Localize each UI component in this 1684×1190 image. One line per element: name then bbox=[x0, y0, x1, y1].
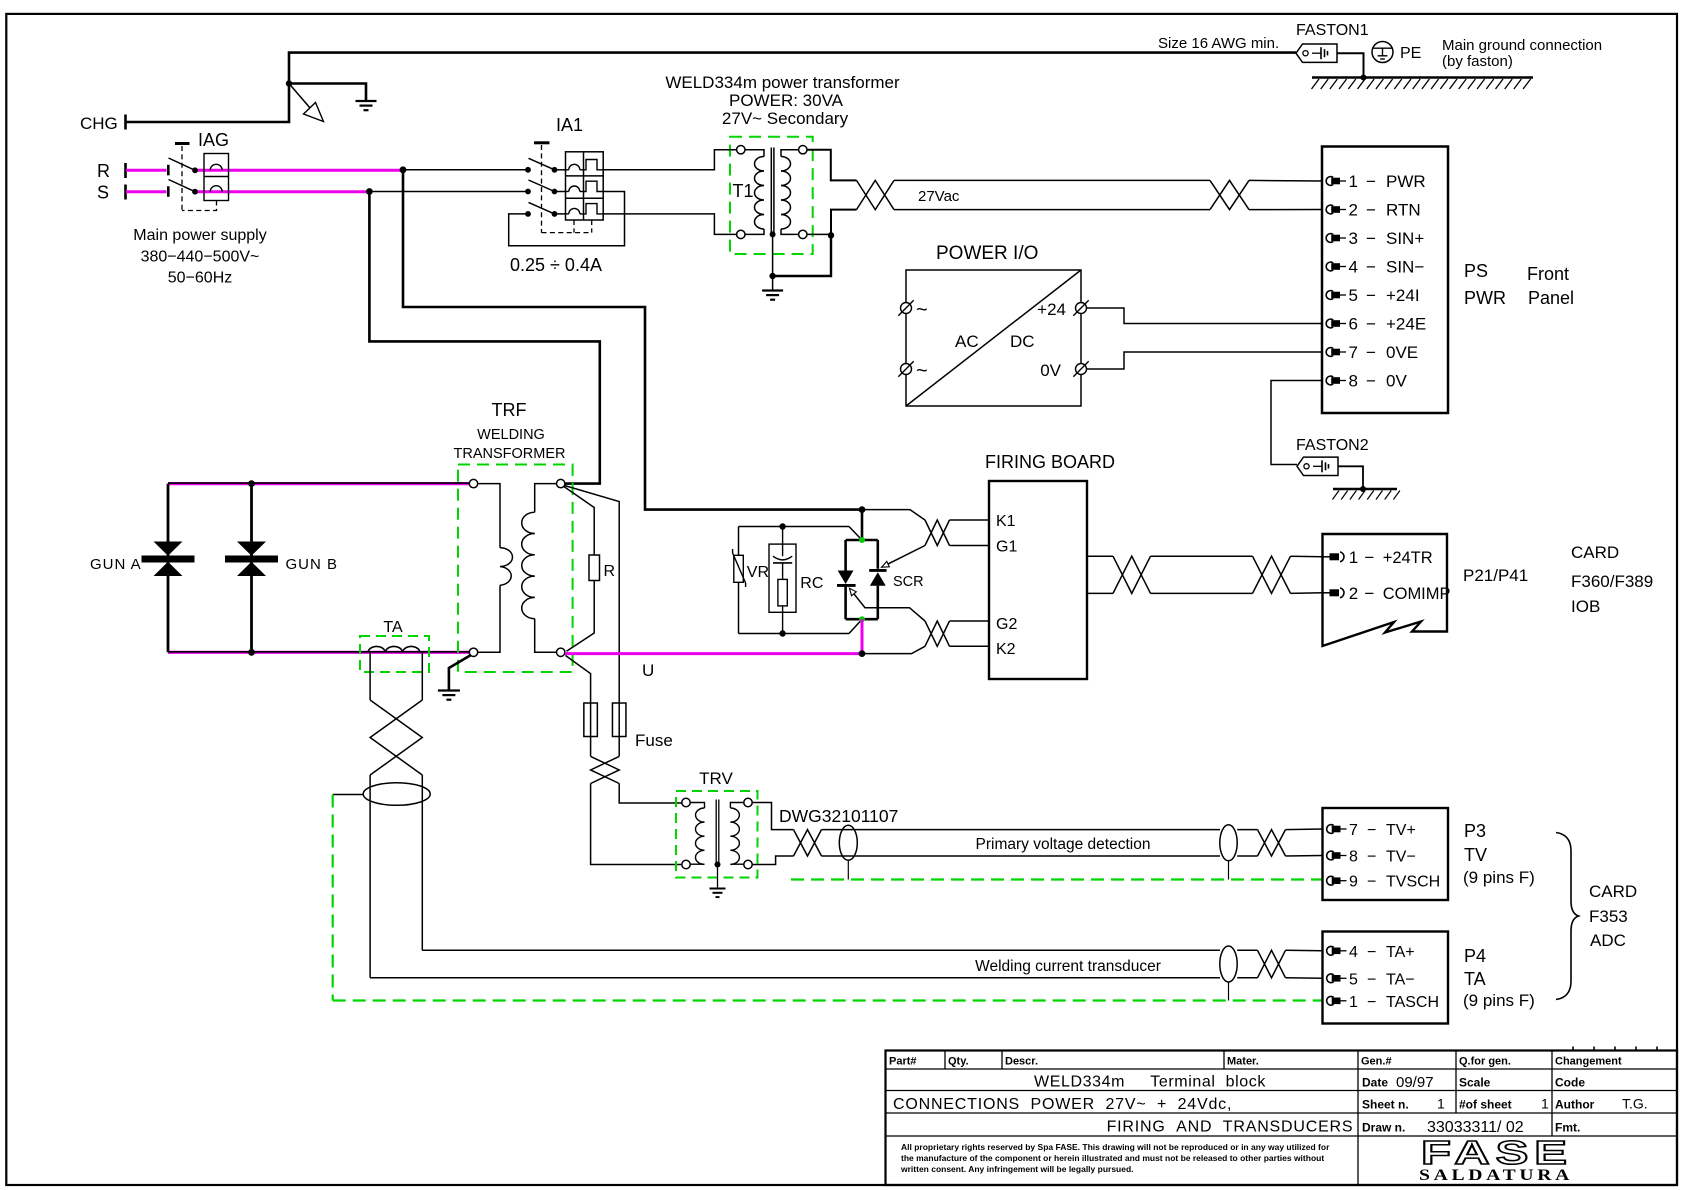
svg-text:U: U bbox=[642, 661, 654, 680]
svg-text:1: 1 bbox=[1541, 1096, 1549, 1112]
svg-text:WELD334m power transformer: WELD334m power transformer bbox=[665, 73, 900, 92]
svg-text:TRV: TRV bbox=[699, 769, 733, 788]
svg-text:COMIMP: COMIMP bbox=[1383, 585, 1451, 603]
svg-text:Main power supply: Main power supply bbox=[133, 227, 266, 244]
svg-text:Qty.: Qty. bbox=[948, 1056, 969, 1068]
svg-text:F353: F353 bbox=[1589, 907, 1628, 926]
svg-text:K1: K1 bbox=[996, 513, 1016, 530]
svg-text:−: − bbox=[1367, 822, 1376, 839]
svg-text:TRANSFORMER: TRANSFORMER bbox=[454, 446, 566, 462]
svg-text:−: − bbox=[1367, 944, 1376, 961]
svg-text:P4: P4 bbox=[1464, 946, 1486, 966]
svg-text:Sheet n.: Sheet n. bbox=[1362, 1098, 1409, 1112]
svg-text:AC: AC bbox=[955, 332, 979, 351]
svg-text:09/97: 09/97 bbox=[1396, 1074, 1434, 1091]
svg-text:7: 7 bbox=[1349, 343, 1358, 362]
svg-text:SIN−: SIN− bbox=[1386, 258, 1424, 277]
svg-text:8: 8 bbox=[1349, 372, 1358, 391]
svg-text:TV−: TV− bbox=[1386, 849, 1416, 866]
svg-text:IOB: IOB bbox=[1571, 597, 1600, 616]
svg-text:SALDATURA: SALDATURA bbox=[1419, 1167, 1573, 1184]
svg-text:P21/P41: P21/P41 bbox=[1463, 566, 1528, 585]
svg-text:Changement: Changement bbox=[1555, 1056, 1622, 1068]
svg-text:TA: TA bbox=[1464, 969, 1486, 989]
svg-text:+24TR: +24TR bbox=[1383, 549, 1433, 567]
svg-text:G1: G1 bbox=[996, 539, 1017, 556]
svg-text:TRF: TRF bbox=[492, 400, 527, 420]
svg-text:Part#: Part# bbox=[889, 1056, 917, 1068]
svg-text:50−60Hz: 50−60Hz bbox=[168, 270, 233, 287]
svg-text:Size 16 AWG min.: Size 16 AWG min. bbox=[1158, 35, 1279, 52]
svg-text:the manufacture of the compone: the manufacture of the component or here… bbox=[901, 1153, 1324, 1163]
svg-text:0V: 0V bbox=[1040, 361, 1061, 380]
svg-text:−: − bbox=[1364, 548, 1374, 567]
svg-text:FIRING AND TRANSDUCERS: FIRING AND TRANSDUCERS bbox=[1107, 1119, 1354, 1136]
svg-text:TVSCH: TVSCH bbox=[1386, 874, 1440, 891]
svg-text:−: − bbox=[1367, 874, 1376, 891]
svg-text:P3: P3 bbox=[1464, 821, 1486, 841]
svg-text:DWG32101107: DWG32101107 bbox=[779, 806, 898, 826]
svg-text:IA1: IA1 bbox=[556, 115, 583, 135]
svg-text:−: − bbox=[1366, 172, 1376, 191]
svg-text:4: 4 bbox=[1349, 258, 1358, 277]
svg-text:TV+: TV+ bbox=[1386, 822, 1416, 839]
svg-text:−: − bbox=[1366, 372, 1376, 391]
svg-text:2: 2 bbox=[1349, 201, 1358, 220]
svg-text:T1: T1 bbox=[733, 181, 754, 201]
svg-text:−: − bbox=[1367, 849, 1376, 866]
svg-text:7: 7 bbox=[1349, 822, 1358, 839]
svg-text:−: − bbox=[1366, 315, 1376, 334]
svg-text:~: ~ bbox=[916, 299, 928, 321]
svg-text:380−440−500V~: 380−440−500V~ bbox=[141, 249, 260, 266]
svg-text:FASTON1: FASTON1 bbox=[1296, 22, 1369, 39]
svg-text:27Vac: 27Vac bbox=[918, 188, 960, 205]
svg-text:T.G.: T.G. bbox=[1622, 1096, 1648, 1112]
svg-text:Gen.#: Gen.# bbox=[1361, 1056, 1392, 1068]
svg-text:IAG: IAG bbox=[198, 130, 229, 150]
svg-text:−: − bbox=[1366, 229, 1376, 248]
svg-text:~: ~ bbox=[916, 360, 928, 382]
svg-text:Draw n.: Draw n. bbox=[1362, 1121, 1405, 1135]
svg-text:Date: Date bbox=[1362, 1076, 1388, 1090]
svg-text:(9 pins F): (9 pins F) bbox=[1463, 868, 1535, 887]
svg-text:CARD: CARD bbox=[1571, 543, 1619, 562]
svg-text:Primary voltage detection: Primary voltage detection bbox=[976, 836, 1151, 853]
svg-text:6: 6 bbox=[1349, 315, 1358, 334]
svg-text:CHG: CHG bbox=[80, 114, 118, 133]
svg-text:FASTON2: FASTON2 bbox=[1296, 437, 1369, 454]
svg-text:POWER: 30VA: POWER: 30VA bbox=[729, 91, 844, 110]
svg-text:CARD: CARD bbox=[1589, 882, 1637, 901]
svg-text:0V: 0V bbox=[1386, 372, 1407, 391]
svg-text:2: 2 bbox=[1349, 584, 1358, 603]
svg-text:TV: TV bbox=[1464, 845, 1487, 865]
svg-text:TA+: TA+ bbox=[1386, 944, 1415, 961]
svg-text:PS: PS bbox=[1464, 261, 1488, 281]
svg-text:F360/F389: F360/F389 bbox=[1571, 572, 1653, 591]
svg-text:0VE: 0VE bbox=[1386, 343, 1418, 362]
svg-text:FIRING BOARD: FIRING BOARD bbox=[985, 452, 1115, 472]
svg-text:POWER I/O: POWER I/O bbox=[936, 243, 1038, 264]
svg-text:1: 1 bbox=[1349, 172, 1358, 191]
svg-text:SIN+: SIN+ bbox=[1386, 229, 1424, 248]
svg-text:Fuse: Fuse bbox=[635, 731, 673, 750]
svg-text:Panel: Panel bbox=[1528, 288, 1574, 308]
svg-text:−: − bbox=[1367, 971, 1376, 988]
svg-text:Main ground connection: Main ground connection bbox=[1442, 37, 1602, 54]
svg-text:−: − bbox=[1364, 584, 1374, 603]
svg-text:TASCH: TASCH bbox=[1386, 994, 1439, 1011]
svg-text:(9 pins F): (9 pins F) bbox=[1463, 991, 1535, 1010]
svg-text:RTN: RTN bbox=[1386, 201, 1421, 220]
svg-text:5: 5 bbox=[1349, 971, 1358, 988]
svg-text:All proprietary rights reserve: All proprietary rights reserved by Spa F… bbox=[901, 1142, 1330, 1152]
svg-text:TA: TA bbox=[383, 619, 403, 636]
svg-text:1: 1 bbox=[1349, 548, 1358, 567]
svg-text:8: 8 bbox=[1349, 849, 1358, 866]
svg-text:+24: +24 bbox=[1037, 300, 1066, 319]
svg-text:Fmt.: Fmt. bbox=[1555, 1121, 1580, 1135]
svg-text:TA−: TA− bbox=[1386, 971, 1415, 988]
svg-text:GUN B: GUN B bbox=[286, 556, 339, 573]
svg-text:27V~ Secondary: 27V~ Secondary bbox=[722, 109, 849, 128]
svg-text:(by faston): (by faston) bbox=[1442, 53, 1513, 70]
svg-text:Mater.: Mater. bbox=[1227, 1056, 1259, 1068]
svg-text:FASE: FASE bbox=[1421, 1134, 1573, 1171]
svg-text:9: 9 bbox=[1349, 874, 1358, 891]
svg-text:GUN A: GUN A bbox=[90, 556, 142, 573]
svg-text:written consent. Any infringem: written consent. Any infringement will b… bbox=[900, 1164, 1134, 1174]
svg-text:0.25 ÷ 0.4A: 0.25 ÷ 0.4A bbox=[510, 255, 602, 275]
svg-text:RC: RC bbox=[800, 575, 823, 592]
svg-text:Q.for gen.: Q.for gen. bbox=[1459, 1056, 1511, 1068]
svg-text:WELDING: WELDING bbox=[477, 427, 545, 443]
svg-text:+24E: +24E bbox=[1386, 315, 1426, 334]
svg-text:PWR: PWR bbox=[1464, 288, 1506, 308]
svg-text:Descr.: Descr. bbox=[1005, 1056, 1038, 1068]
svg-text:DC: DC bbox=[1010, 332, 1035, 351]
svg-text:R: R bbox=[604, 563, 616, 580]
svg-text:SCR: SCR bbox=[893, 574, 924, 590]
svg-text:Welding current transducer: Welding current transducer bbox=[975, 958, 1161, 975]
svg-text:−: − bbox=[1366, 258, 1376, 277]
svg-text:VR: VR bbox=[747, 564, 769, 581]
svg-text:Front: Front bbox=[1527, 264, 1569, 284]
svg-text:1: 1 bbox=[1437, 1096, 1445, 1112]
svg-text:−: − bbox=[1366, 201, 1376, 220]
svg-text:+24I: +24I bbox=[1386, 286, 1420, 305]
svg-text:WELD334m Terminal block: WELD334m Terminal block bbox=[1034, 1074, 1266, 1091]
svg-text:#of sheet: #of sheet bbox=[1459, 1098, 1512, 1112]
svg-text:Scale: Scale bbox=[1459, 1076, 1491, 1090]
svg-text:4: 4 bbox=[1349, 944, 1358, 961]
svg-text:R: R bbox=[97, 161, 110, 181]
svg-text:−: − bbox=[1367, 994, 1376, 1011]
svg-text:1: 1 bbox=[1349, 994, 1358, 1011]
svg-text:−: − bbox=[1366, 286, 1376, 305]
svg-text:ADC: ADC bbox=[1590, 931, 1626, 950]
svg-text:Code: Code bbox=[1555, 1076, 1585, 1090]
svg-text:PWR: PWR bbox=[1386, 172, 1426, 191]
svg-text:CONNECTIONS POWER 27V~ + 2: CONNECTIONS POWER 27V~ + 24Vdc, bbox=[893, 1096, 1232, 1113]
svg-text:−: − bbox=[1366, 343, 1376, 362]
svg-text:S: S bbox=[97, 183, 109, 203]
svg-text:Author: Author bbox=[1555, 1098, 1595, 1112]
svg-text:5: 5 bbox=[1349, 286, 1358, 305]
svg-text:PE: PE bbox=[1400, 45, 1421, 62]
svg-text:K2: K2 bbox=[996, 641, 1016, 658]
svg-text:3: 3 bbox=[1349, 229, 1358, 248]
svg-text:G2: G2 bbox=[996, 616, 1017, 633]
